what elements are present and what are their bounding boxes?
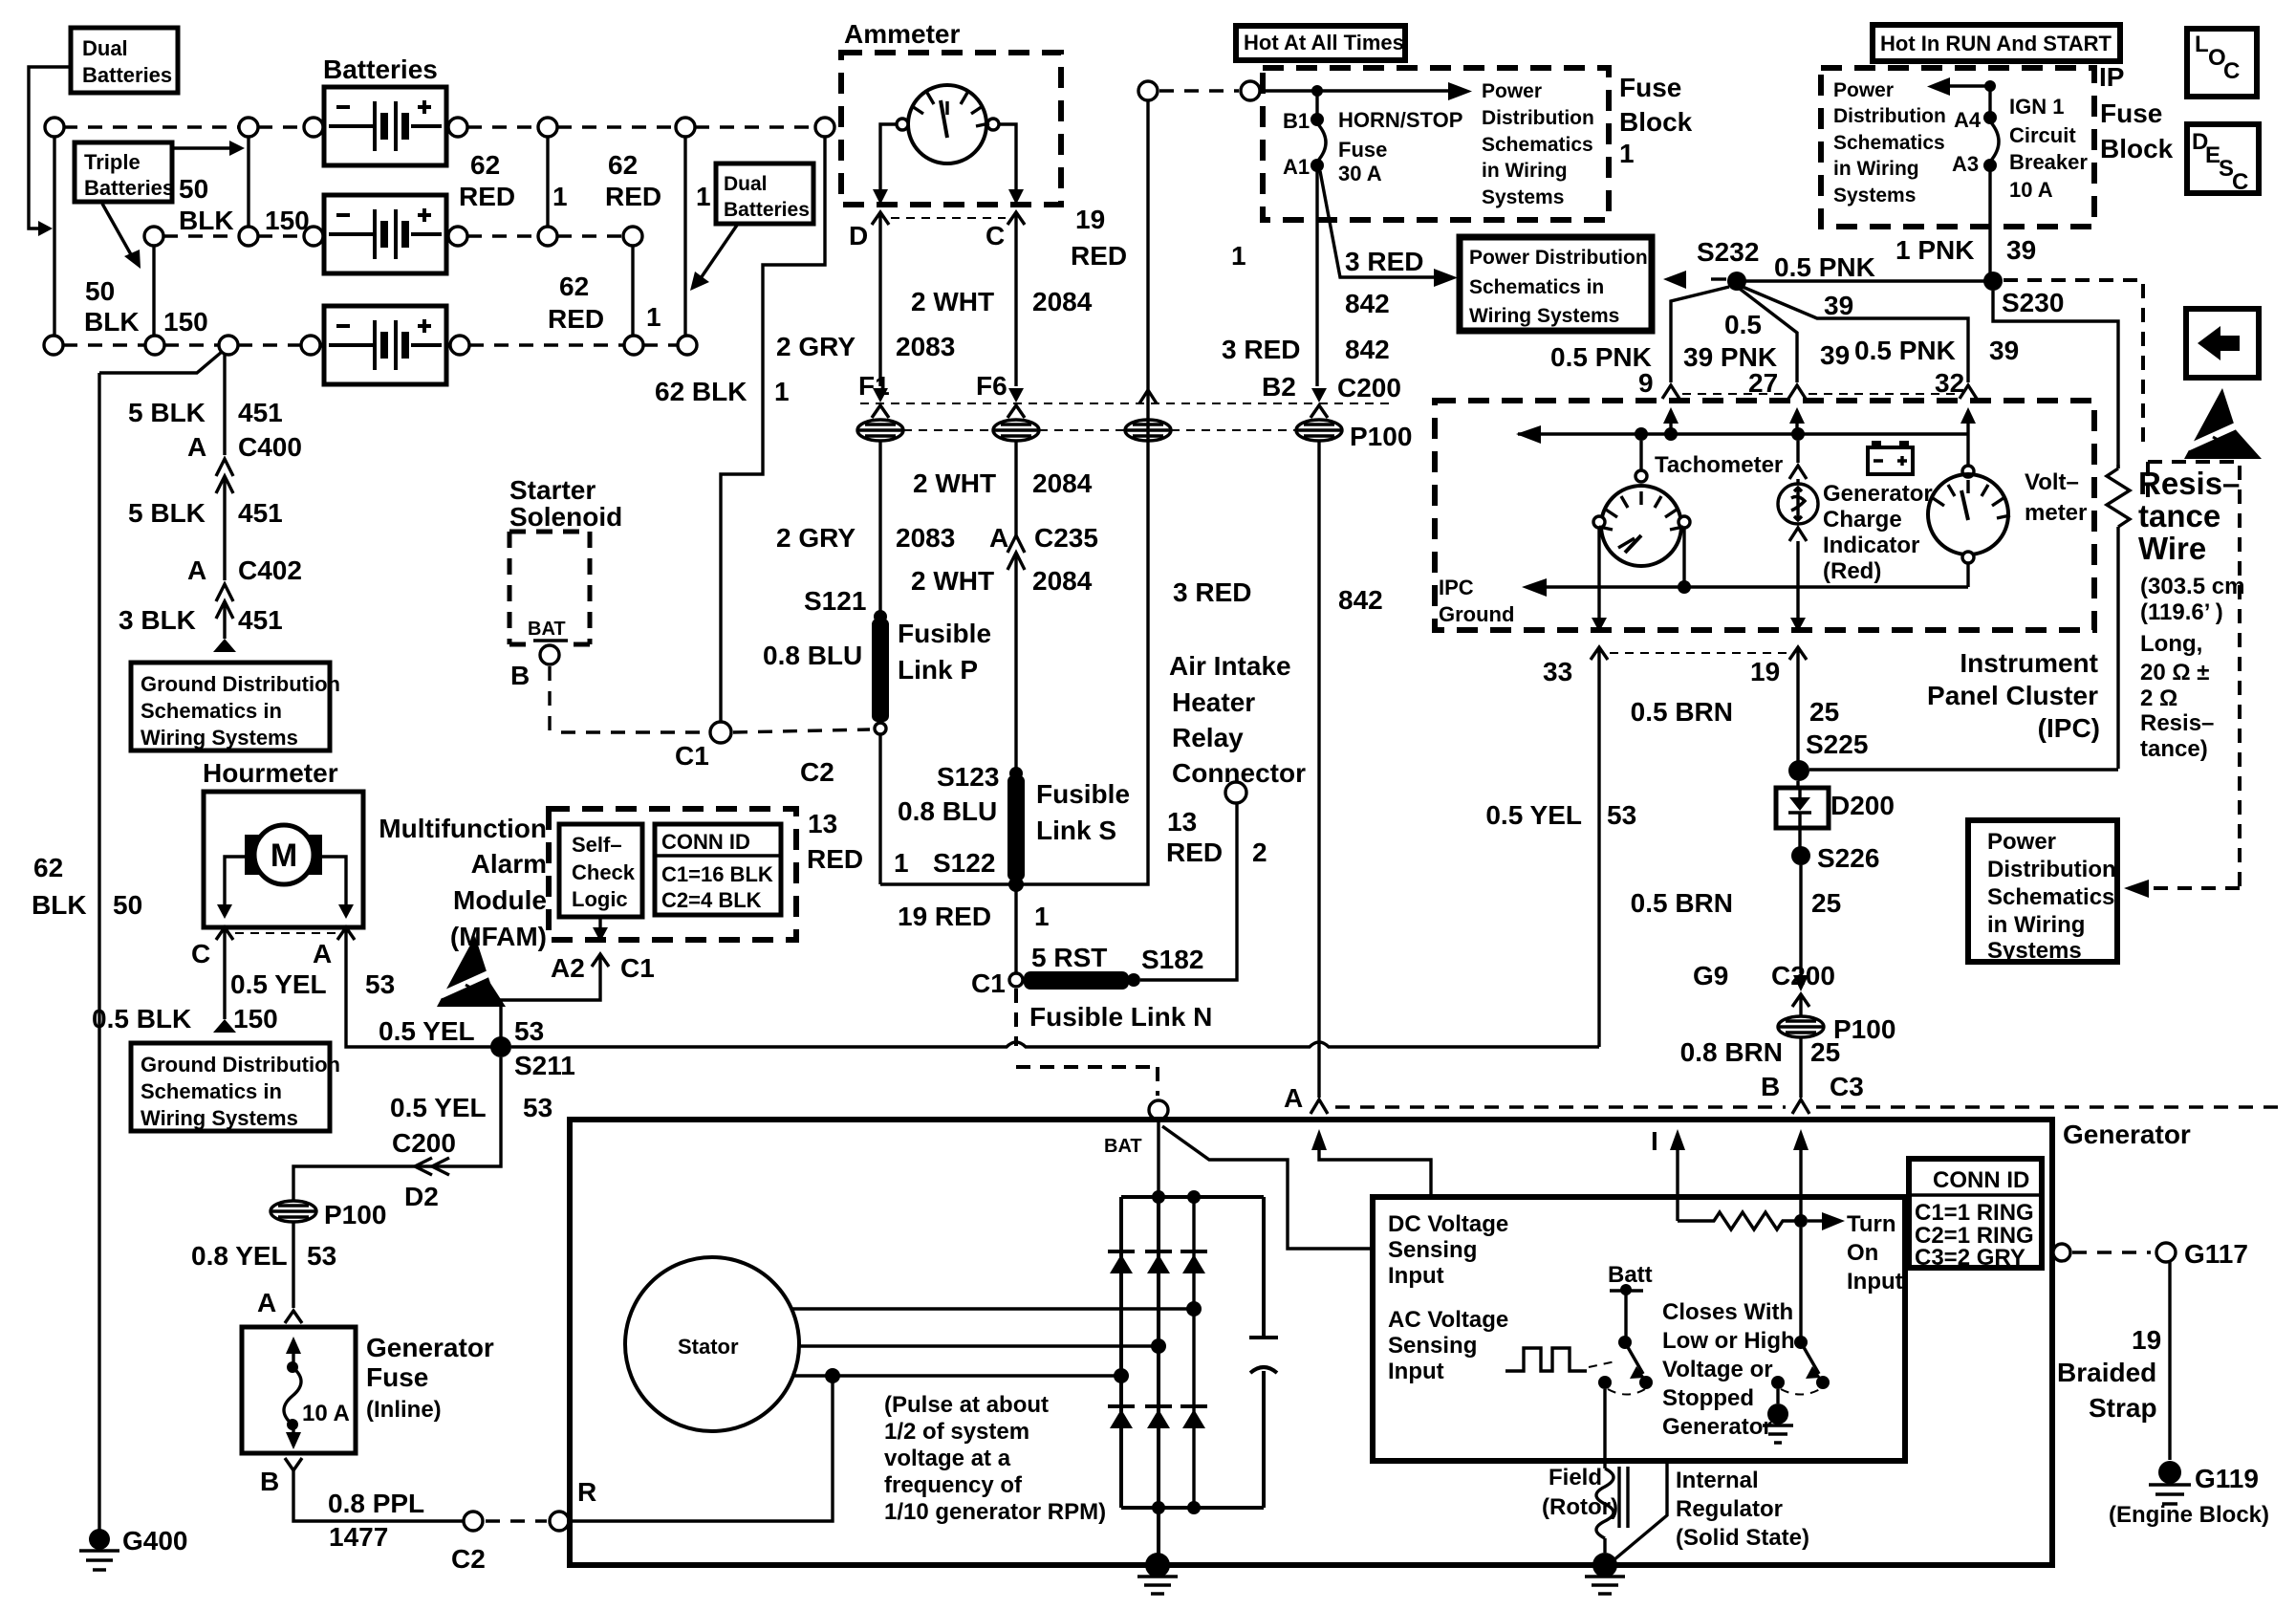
IP fuse block dashed box <box>1821 68 2094 227</box>
fuse block dashed box <box>1263 68 1609 220</box>
svg-text:842: 842 <box>1345 335 1390 364</box>
label box Ground Distribution Schematics <box>131 663 330 751</box>
wire S232 to S230 <box>1745 279 1984 282</box>
wire BAT into bridge <box>1157 1120 1159 1197</box>
svg-text:0.5 YEL: 0.5 YEL <box>390 1093 487 1122</box>
connector row at fuse block bottom F1 F6 B2 <box>860 402 1396 404</box>
label box Hot At All Times <box>1236 26 1405 60</box>
svg-text:(303.5 cm: (303.5 cm <box>2140 574 2244 599</box>
svg-text:C: C <box>986 221 1005 250</box>
wire 0.5 39 PNK 27 <box>1740 289 1797 382</box>
svg-text:F6: F6 <box>976 371 1007 401</box>
svg-text:0.5: 0.5 <box>1724 310 1762 339</box>
node BAT ring at generator top <box>1149 1100 1168 1120</box>
wire 19 RED 1 with inline connector to fuse block <box>1138 81 1158 100</box>
MFAM dashed box <box>549 809 796 940</box>
svg-text:BLK: BLK <box>179 206 234 235</box>
svg-text:A2: A2 <box>551 953 585 983</box>
resistance wire dashed box <box>2148 462 2240 888</box>
svg-text:1: 1 <box>1231 241 1246 271</box>
svg-text:B1: B1 <box>1283 109 1310 133</box>
svg-text:Block: Block <box>2100 134 2174 163</box>
wire 2 WHT 2084 (C upper) <box>1014 226 1017 386</box>
label box Power Distribution Schematics in Wiring Systems <box>1460 237 1652 331</box>
wire braided strap <box>2168 1262 2171 1460</box>
svg-text:19: 19 <box>1075 205 1105 234</box>
ground generator main <box>1145 1553 1170 1577</box>
wire 62 RED 1 (row1-row2) <box>546 137 549 227</box>
svg-text:19: 19 <box>2132 1325 2161 1355</box>
svg-text:(MFAM): (MFAM) <box>450 922 547 951</box>
svg-text:2 Ω: 2 Ω <box>2140 685 2177 711</box>
svg-text:P100: P100 <box>1350 422 1412 451</box>
svg-text:Distribution: Distribution <box>1987 857 2116 882</box>
svg-text:Fuse: Fuse <box>1619 73 1681 102</box>
wire grommet row P100 <box>903 429 1296 431</box>
svg-text:Wire: Wire <box>2138 531 2206 566</box>
svg-text:0.8 PPL: 0.8 PPL <box>328 1489 424 1518</box>
svg-text:D: D <box>849 221 868 250</box>
svg-text:842: 842 <box>1338 585 1383 615</box>
wire hourmeter A leg <box>322 857 346 906</box>
node S226 <box>1791 846 1810 865</box>
connector C1 dashed below link N <box>1016 989 1158 1096</box>
svg-text:tance): tance) <box>2140 736 2208 762</box>
svg-text:1: 1 <box>552 182 568 211</box>
svg-text:A: A <box>989 523 1008 553</box>
svg-text:Schematics: Schematics <box>1482 134 1593 156</box>
svg-text:0.8 BLU: 0.8 BLU <box>763 641 862 670</box>
svg-text:Sensing: Sensing <box>1388 1333 1477 1359</box>
svg-text:(Red): (Red) <box>1823 558 1881 584</box>
svg-text:Module: Module <box>453 885 547 915</box>
label box Ground Distribution Schematics (lower) <box>131 1043 330 1131</box>
arrow from Triple Batteries box to lower 150 wire <box>102 204 132 256</box>
grommet P100 (generator fuse) <box>271 1201 316 1222</box>
wire 0.5 BRN 25 (lower) <box>1799 865 1802 973</box>
svg-text:Heater: Heater <box>1172 687 1255 717</box>
svg-text:62 BLK: 62 BLK <box>655 377 747 406</box>
svg-text:RED: RED <box>459 182 515 211</box>
wire to P100 <box>1799 1008 1802 1015</box>
svg-text:10 A: 10 A <box>2009 178 2053 202</box>
fuse element 10A <box>286 1337 301 1354</box>
battery B2 (middle) <box>324 195 446 273</box>
svg-text:3 RED: 3 RED <box>1173 577 1251 607</box>
stator phase wire 2 <box>799 1344 1159 1347</box>
svg-text:C1=16 BLK: C1=16 BLK <box>661 862 773 886</box>
wire 1 PNK 39 <box>1988 171 1991 277</box>
wire 3 RED 842 branch arrow <box>1320 171 1434 277</box>
svg-text:39: 39 <box>1820 340 1850 370</box>
svg-text:0.8 BLU: 0.8 BLU <box>898 796 997 826</box>
svg-text:CONN ID: CONN ID <box>1933 1167 2029 1193</box>
svg-text:0.5 BLK: 0.5 BLK <box>92 1004 191 1033</box>
ground G119 <box>2158 1461 2181 1484</box>
svg-text:Logic: Logic <box>572 887 628 911</box>
ammeter gauge <box>908 85 986 163</box>
svg-text:Resis–: Resis– <box>2140 710 2214 736</box>
svg-text:Link P: Link P <box>898 655 978 685</box>
svg-text:meter: meter <box>2025 500 2087 526</box>
svg-text:Hourmeter: Hourmeter <box>203 758 338 788</box>
wire S211 down 0.5 YEL 53 <box>432 1057 501 1166</box>
svg-text:P100: P100 <box>1833 1014 1895 1044</box>
battery B3 (bottom) <box>324 306 446 384</box>
grommet P100 <box>1778 1016 1824 1037</box>
svg-text:150: 150 <box>233 1004 278 1033</box>
svg-text:1: 1 <box>774 377 790 406</box>
dashed arrow into power distribution box right <box>2151 886 2240 890</box>
svg-text:(Engine Block): (Engine Block) <box>2109 1502 2269 1528</box>
svg-text:G117: G117 <box>2184 1239 2248 1269</box>
diode D200 <box>1796 781 1799 788</box>
label box Power Distribution (right) <box>1968 820 2117 962</box>
svg-text:On: On <box>1847 1240 1878 1266</box>
svg-text:Power Distribution: Power Distribution <box>1469 247 1648 269</box>
node B1 <box>1311 85 1323 97</box>
wire 2 GRY 2083 (D upper) <box>878 226 881 386</box>
svg-text:2 WHT: 2 WHT <box>913 468 996 498</box>
svg-text:B2: B2 <box>1262 372 1296 402</box>
generator fuse box <box>242 1327 356 1453</box>
SECTION: hourmeter-mfam <box>92 758 1599 1211</box>
svg-text:62: 62 <box>470 150 500 180</box>
stator <box>625 1257 799 1431</box>
svg-text:Hot In RUN And START: Hot In RUN And START <box>1880 32 2112 55</box>
node ring on fuse block edge <box>1241 81 1260 100</box>
svg-text:Generator: Generator <box>2063 1120 2191 1149</box>
diodes top row <box>1108 1251 1207 1273</box>
wire thin dashed connector row 9 27 32 <box>1682 393 1957 395</box>
svg-text:RED: RED <box>605 182 661 211</box>
svg-text:S121: S121 <box>804 586 866 616</box>
svg-text:BAT: BAT <box>1104 1136 1142 1157</box>
IPC dashed box <box>1435 401 2094 630</box>
svg-text:I: I <box>1651 1126 1658 1156</box>
SECTION: d200chain <box>1631 729 2118 1221</box>
wire S225 to resistance wire <box>1809 768 2118 771</box>
svg-text:Dual: Dual <box>82 36 128 60</box>
svg-text:1477: 1477 <box>329 1522 388 1552</box>
svg-text:20 Ω ±: 20 Ω ± <box>2140 660 2209 685</box>
fusible link S <box>1007 775 1025 881</box>
wire 50 BLK 150 (row1-row2) <box>247 137 249 227</box>
svg-text:1/10 generator RPM): 1/10 generator RPM) <box>884 1499 1106 1525</box>
svg-text:DC Voltage: DC Voltage <box>1388 1211 1508 1237</box>
wire dashed to generator R <box>486 1519 547 1522</box>
SECTION: ipfuse <box>1550 25 2262 964</box>
wire 0.5 BLK 150 <box>223 941 226 1019</box>
svg-text:Air Intake: Air Intake <box>1169 651 1291 681</box>
svg-text:25: 25 <box>1809 697 1839 727</box>
wire 0.5 PNK 9 <box>1671 287 1729 382</box>
svg-text:Ground: Ground <box>1439 602 1514 626</box>
svg-text:in Wiring: in Wiring <box>1833 158 1919 180</box>
wire S182 to air intake connector <box>1140 803 1237 980</box>
svg-text:842: 842 <box>1345 289 1390 318</box>
wire 62 RED 1 (row2-row3) <box>631 246 634 336</box>
node 5 BLK 451 branch from row3 <box>99 352 222 373</box>
svg-text:(119.6’ ): (119.6’ ) <box>2140 599 2223 625</box>
ammeter dashed box <box>841 53 1061 205</box>
rectifier bridge top bus <box>1121 1195 1264 1199</box>
svg-text:Ammeter: Ammeter <box>844 19 960 49</box>
starter solenoid dashed box <box>509 532 590 644</box>
connector row below hourmeter <box>235 932 336 934</box>
svg-text:Fuse: Fuse <box>1338 138 1387 162</box>
svg-text:in Wiring: in Wiring <box>1987 912 2085 938</box>
svg-text:25: 25 <box>1810 1037 1840 1067</box>
svg-text:Power: Power <box>1833 79 1894 101</box>
svg-text:Systems: Systems <box>1987 938 2082 964</box>
svg-text:RED: RED <box>807 844 863 874</box>
svg-text:2084: 2084 <box>1032 566 1093 596</box>
svg-text:Distribution: Distribution <box>1833 105 1946 127</box>
svg-text:BLK: BLK <box>84 307 140 337</box>
svg-text:Panel Cluster: Panel Cluster <box>1927 681 2098 710</box>
svg-text:Charge: Charge <box>1823 507 1902 533</box>
SECTION: ipc <box>1435 401 2100 1047</box>
SECTION: generator <box>570 1120 2191 1594</box>
switch 1 (batt) <box>1624 1293 1627 1337</box>
svg-text:D200: D200 <box>1830 791 1895 820</box>
svg-text:Solenoid: Solenoid <box>509 502 622 532</box>
connector A2 C1 <box>592 954 609 968</box>
wire field output <box>1603 1389 1606 1469</box>
wire 3 RED 842 below grommet <box>1317 441 1320 1098</box>
svg-text:Multifunction: Multifunction <box>379 814 547 843</box>
svg-text:2 WHT: 2 WHT <box>911 287 994 316</box>
diodes bottom row <box>1108 1406 1207 1428</box>
svg-text:IP: IP <box>2099 62 2124 92</box>
wire D200 to S226 <box>1798 828 1801 851</box>
svg-text:Batteries: Batteries <box>84 176 174 200</box>
svg-text:9: 9 <box>1638 368 1654 398</box>
svg-text:Systems: Systems <box>1833 185 1916 207</box>
svg-text:Low or High: Low or High <box>1662 1328 1795 1354</box>
svg-text:13: 13 <box>808 809 837 838</box>
wire ammeter C leg <box>999 124 1016 191</box>
svg-text:C200: C200 <box>1337 373 1401 402</box>
svg-text:Closes With: Closes With <box>1662 1299 1793 1325</box>
wire 3 RED 842 main <box>1315 171 1318 386</box>
svg-text:Wiring Systems: Wiring Systems <box>1469 305 1619 327</box>
svg-text:Check: Check <box>572 860 636 884</box>
svg-text:Input: Input <box>1388 1263 1444 1289</box>
wire hourmeter A to S211 bus <box>346 941 493 1047</box>
svg-text:C3=2 GRY: C3=2 GRY <box>1915 1245 2025 1271</box>
svg-text:2 GRY: 2 GRY <box>776 523 856 553</box>
svg-text:A: A <box>187 555 206 585</box>
svg-text:1: 1 <box>646 302 661 332</box>
svg-text:R: R <box>577 1477 596 1507</box>
node ring C2 <box>464 1512 483 1531</box>
svg-text:5 BLK: 5 BLK <box>128 398 206 427</box>
svg-text:Self–: Self– <box>572 833 622 857</box>
svg-text:1: 1 <box>1619 139 1635 168</box>
wire battery row2 dashed y=247 <box>163 234 304 237</box>
svg-text:RED: RED <box>1071 241 1127 271</box>
svg-text:IGN 1: IGN 1 <box>2009 95 2064 119</box>
wire R to pulse tap <box>570 1376 833 1521</box>
svg-text:39: 39 <box>2006 235 2036 265</box>
svg-text:Fusible: Fusible <box>898 619 991 648</box>
svg-text:Systems: Systems <box>1482 186 1564 208</box>
svg-text:BLK: BLK <box>32 890 87 920</box>
svg-text:50: 50 <box>179 174 208 204</box>
battery icon <box>1868 447 1913 474</box>
fuse HORN/STOP 30A <box>1317 123 1326 162</box>
arrow from Dual Batteries 2 to 62 RED wire <box>701 224 738 278</box>
wire solenoid B dashed to C1 <box>550 666 707 732</box>
svg-text:F1: F1 <box>858 371 890 401</box>
svg-text:Batt: Batt <box>1608 1262 1653 1288</box>
svg-text:451: 451 <box>238 498 283 528</box>
svg-text:0.5 BRN: 0.5 BRN <box>1631 888 1733 918</box>
label box Dual Batteries (second) <box>716 163 813 224</box>
svg-text:5 RST: 5 RST <box>1031 943 1107 972</box>
svg-text:S232: S232 <box>1697 237 1759 267</box>
capacitor <box>1249 1197 1278 1338</box>
SECTION: fuseblock1 <box>1173 26 2285 1195</box>
svg-text:53: 53 <box>514 1016 544 1046</box>
svg-text:Schematics in: Schematics in <box>141 1079 282 1103</box>
svg-text:53: 53 <box>307 1241 336 1271</box>
svg-text:Schematics: Schematics <box>1833 132 1945 154</box>
svg-text:in Wiring: in Wiring <box>1482 160 1568 182</box>
wire 2 WHT 2084 (C lower) <box>1014 553 1017 771</box>
splice dot right of link N <box>1127 973 1140 987</box>
svg-text:S182: S182 <box>1141 945 1203 974</box>
svg-text:Ground Distribution: Ground Distribution <box>141 672 340 696</box>
wire B into generator <box>1793 1129 1809 1150</box>
svg-text:Input: Input <box>1847 1269 1903 1295</box>
svg-text:Dual: Dual <box>724 173 768 195</box>
svg-text:Voltage or: Voltage or <box>1662 1357 1773 1382</box>
svg-text:C: C <box>2232 169 2248 195</box>
wire from self-check logic down <box>598 917 601 929</box>
node C1 ring (link N) <box>1009 973 1023 987</box>
node phase dots <box>1186 1301 1202 1316</box>
svg-text:Field: Field <box>1549 1465 1602 1490</box>
box CONN ID (MFAM) <box>655 824 781 915</box>
svg-text:0.5 PNK: 0.5 PNK <box>1550 342 1652 372</box>
svg-text:Fuse: Fuse <box>2100 98 2162 128</box>
svg-text:Resis–: Resis– <box>2138 466 2240 501</box>
svg-text:C235: C235 <box>1034 523 1098 553</box>
dashed path S230 to resistance wire box <box>2004 280 2143 449</box>
label box Hot In RUN And START <box>1873 25 2120 61</box>
svg-text:C1=1 RING: C1=1 RING <box>1915 1200 2034 1226</box>
box CONN ID (generator) <box>1909 1159 2042 1268</box>
svg-text:RED: RED <box>1166 838 1223 867</box>
battery B1 (top) <box>324 87 446 165</box>
svg-text:C2: C2 <box>800 757 834 787</box>
svg-text:C1: C1 <box>620 953 655 983</box>
svg-text:S123: S123 <box>937 762 999 792</box>
svg-text:frequency of: frequency of <box>884 1472 1023 1498</box>
svg-text:19: 19 <box>1750 657 1780 686</box>
svg-text:Fusible: Fusible <box>1036 779 1130 809</box>
arrow dashed left of S232 <box>1711 277 1726 280</box>
wire tach left to 33 <box>1597 528 1600 620</box>
svg-text:Distribution: Distribution <box>1482 107 1594 129</box>
svg-text:0.5 PNK: 0.5 PNK <box>1854 336 1956 365</box>
svg-text:Batteries: Batteries <box>82 63 172 87</box>
node C2 at link P <box>875 723 886 734</box>
node air intake ring <box>1225 782 1246 803</box>
svg-text:A: A <box>187 432 206 462</box>
svg-text:Tachometer: Tachometer <box>1655 452 1783 478</box>
svg-text:2084: 2084 <box>1032 287 1093 316</box>
svg-text:Batteries: Batteries <box>724 199 810 221</box>
svg-text:Link S: Link S <box>1036 816 1116 845</box>
wire 39 0.5 PNK 32 <box>1743 287 1968 382</box>
svg-text:BAT: BAT <box>528 619 566 640</box>
wire battery row3 dashed y=361 <box>63 343 301 346</box>
svg-text:C1: C1 <box>971 968 1006 998</box>
wire MFAM C1 down to S211 <box>501 968 600 1038</box>
svg-text:150: 150 <box>265 206 310 235</box>
svg-text:62: 62 <box>33 853 63 882</box>
svg-text:C1: C1 <box>675 741 709 771</box>
wire 50 BLK 150 (row2-row3) <box>152 246 155 336</box>
connector D C row <box>891 217 1006 219</box>
SECTION: genfuse <box>191 1200 596 1574</box>
svg-text:30 A: 30 A <box>1338 162 1382 185</box>
wire battery row1 dashed y=133 <box>63 125 304 128</box>
breaker IGN 1 10A <box>1988 86 1991 113</box>
svg-text:G9: G9 <box>1693 961 1728 990</box>
svg-text:CONN ID: CONN ID <box>661 830 750 854</box>
svg-text:0.8 BRN: 0.8 BRN <box>1680 1037 1783 1067</box>
SECTION: solenoid-links <box>509 475 1306 1120</box>
svg-text:HORN/STOP: HORN/STOP <box>1338 108 1462 132</box>
generator box <box>570 1120 2052 1565</box>
node junction below link S <box>1008 877 1024 892</box>
svg-text:2083: 2083 <box>896 523 955 553</box>
svg-text:2 WHT: 2 WHT <box>911 566 994 596</box>
svg-text:2 GRY: 2 GRY <box>776 332 856 361</box>
svg-text:Triple: Triple <box>84 150 141 174</box>
node row2 circles <box>144 227 163 246</box>
svg-text:A: A <box>1284 1083 1303 1113</box>
wire 19 below IPC <box>1789 647 1807 661</box>
fusible link N <box>1024 971 1129 990</box>
svg-text:Volt–: Volt– <box>2025 469 2079 495</box>
wire ammeter D leg <box>880 124 897 191</box>
svg-text:G119: G119 <box>2195 1464 2259 1493</box>
svg-text:Alarm: Alarm <box>471 849 547 879</box>
svg-text:Sensing: Sensing <box>1388 1237 1477 1263</box>
pulse waveform <box>1505 1348 1587 1371</box>
box left arrow <box>2186 309 2259 378</box>
svg-text:C: C <box>191 939 210 968</box>
svg-text:2: 2 <box>1252 838 1267 867</box>
svg-text:1 PNK: 1 PNK <box>1895 235 1974 265</box>
svg-text:53: 53 <box>1607 800 1636 830</box>
wire 2 WHT 2084 (C middle) <box>1014 441 1017 535</box>
svg-text:Generator: Generator <box>1662 1414 1772 1440</box>
ESD symbol right <box>2184 388 2245 459</box>
svg-text:25: 25 <box>1811 888 1841 918</box>
svg-text:Power: Power <box>1987 829 2056 855</box>
svg-text:0.5 YEL: 0.5 YEL <box>230 969 327 999</box>
svg-text:451: 451 <box>238 398 283 427</box>
svg-text:Schematics in: Schematics in <box>1469 276 1604 298</box>
svg-text:A: A <box>257 1288 276 1317</box>
